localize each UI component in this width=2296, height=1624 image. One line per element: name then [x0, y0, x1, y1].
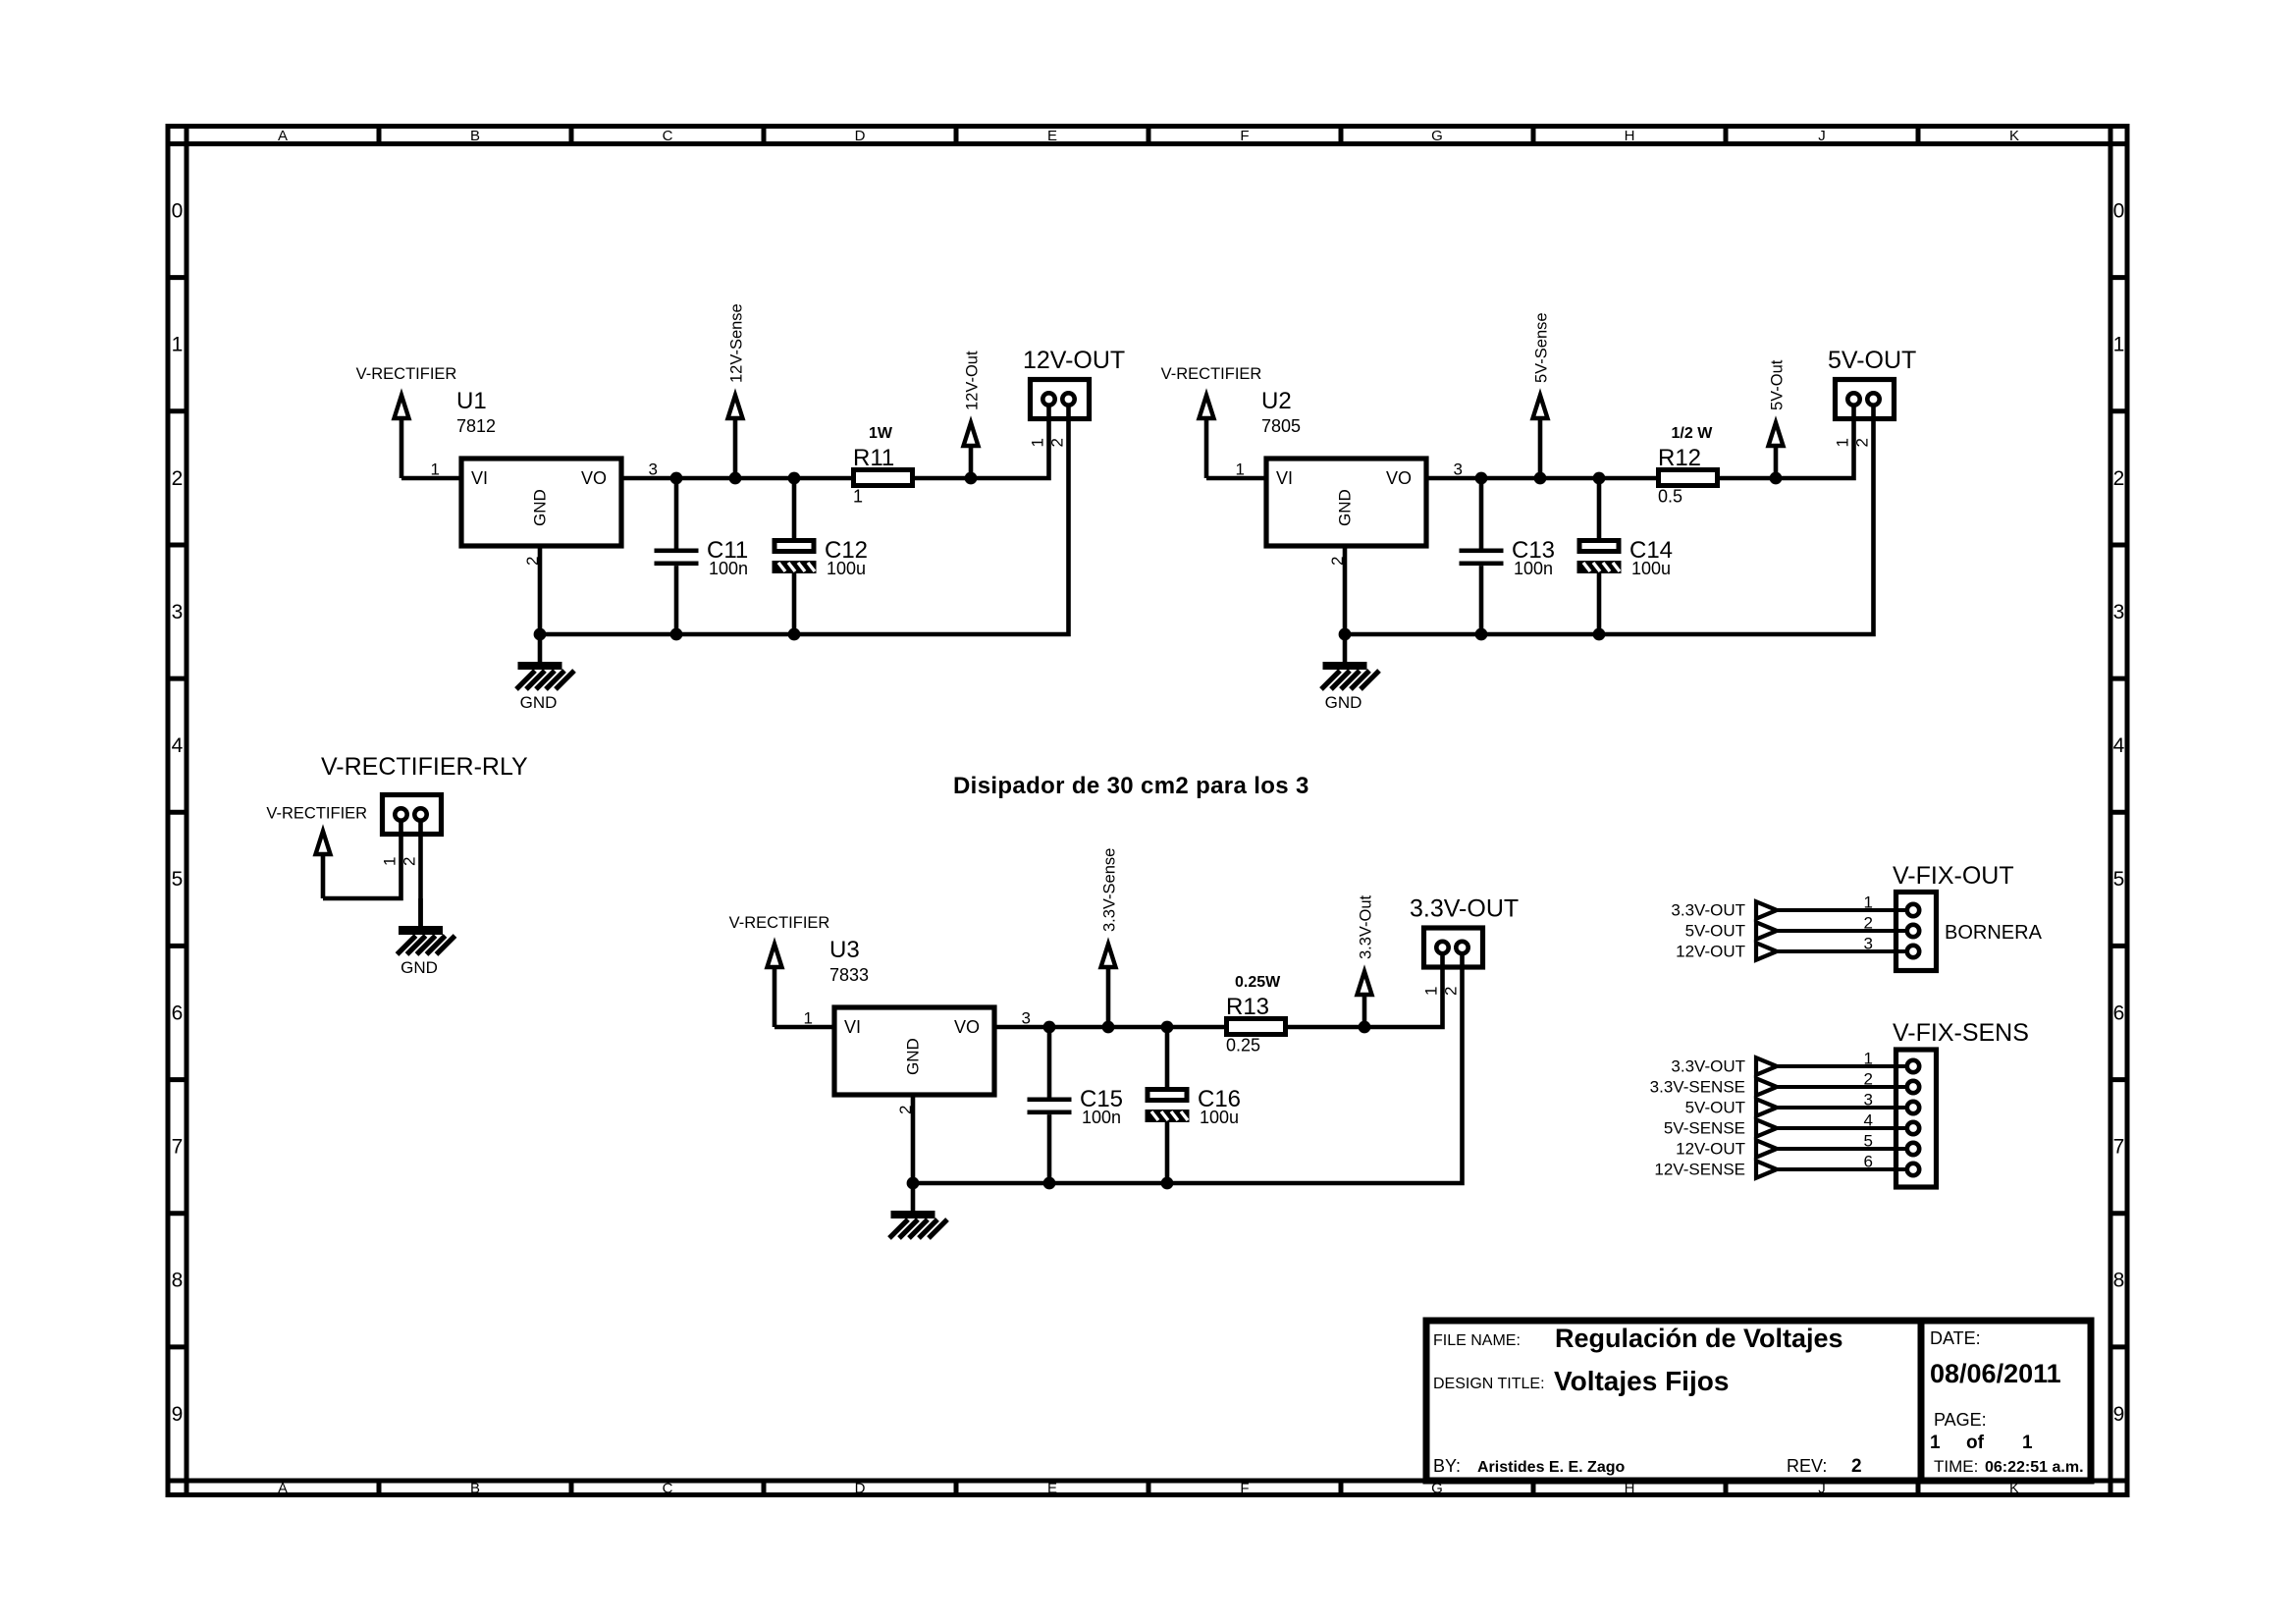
wire 3.3V-SENSE to V-FIX-SENS pin 2	[1777, 1085, 1913, 1089]
wire C14 top lead	[1597, 478, 1602, 538]
svg-text:PAGE:: PAGE:	[1934, 1410, 1987, 1430]
svg-text:VI: VI	[471, 468, 488, 488]
power flag 12V-Out	[964, 423, 979, 479]
connector 3.3V-OUT pin circles	[1436, 942, 1468, 953]
capacitor C16 (electrolytic)	[1146, 1090, 1190, 1123]
svg-text:GND: GND	[904, 1038, 923, 1075]
wire 5V-OUT to V-FIX-SENS pin 3	[1777, 1106, 1913, 1110]
power flag V-RECTIFIER	[1200, 396, 1214, 479]
wire V-RECTIFIER to U1 VI	[401, 476, 459, 481]
svg-text:V-RECTIFIER-RLY: V-RECTIFIER-RLY	[321, 753, 528, 781]
connector 12V-OUT	[1031, 380, 1090, 419]
power flag 5V-Sense	[1533, 396, 1548, 479]
title block frame	[1426, 1321, 2091, 1481]
svg-text:1/2 W: 1/2 W	[1672, 425, 1714, 442]
junction C13 ground	[1475, 628, 1488, 641]
junction C13	[1475, 472, 1488, 485]
power flag V-RECTIFIER	[395, 396, 409, 479]
svg-text:G: G	[1431, 128, 1443, 144]
ground	[1321, 634, 1379, 689]
svg-text:V-RECTIFIER: V-RECTIFIER	[1161, 365, 1262, 383]
svg-text:R12: R12	[1658, 445, 1701, 471]
svg-text:U1: U1	[456, 388, 487, 414]
svg-text:B: B	[470, 1481, 480, 1497]
svg-text:VI: VI	[1276, 468, 1293, 488]
svg-text:C: C	[663, 128, 673, 144]
junction ground bus	[534, 628, 547, 641]
svg-text:5V-OUT: 5V-OUT	[1685, 922, 1745, 941]
svg-text:A: A	[278, 128, 288, 144]
wire 5V-SENSE to V-FIX-SENS pin 4	[1777, 1126, 1913, 1130]
power flag V-RECTIFIER	[316, 832, 331, 899]
power flag 5V-Out	[1769, 423, 1784, 479]
svg-text:9: 9	[2113, 1403, 2125, 1426]
port arrow 12V-OUT	[1756, 1140, 1777, 1157]
svg-text:5: 5	[1864, 1132, 1873, 1151]
svg-text:5: 5	[2113, 868, 2125, 891]
svg-text:12V-OUT: 12V-OUT	[1023, 347, 1125, 374]
svg-text:BORNERA: BORNERA	[1945, 922, 2043, 944]
regulator U1 (7812)	[461, 459, 621, 546]
ground	[516, 634, 574, 689]
svg-text:08/06/2011: 08/06/2011	[1930, 1359, 2061, 1388]
connector 5V-OUT pin circles	[1847, 393, 1879, 405]
wire ground bus to connector pin 2	[540, 400, 1069, 635]
wire 3.3V-OUT to V-FIX-SENS pin 1	[1777, 1064, 1913, 1068]
wire 12V-OUT to V-FIX-SENS pin 5	[1777, 1147, 1913, 1151]
svg-text:5V-OUT: 5V-OUT	[1685, 1099, 1745, 1117]
port arrow 3.3V-OUT	[1756, 901, 1777, 918]
svg-text:3: 3	[1864, 1091, 1873, 1110]
svg-text:1: 1	[431, 460, 440, 479]
svg-text:REV:: REV:	[1787, 1456, 1827, 1476]
svg-text:0: 0	[172, 200, 184, 223]
svg-text:5V-Out: 5V-Out	[1769, 359, 1787, 410]
svg-text:8: 8	[172, 1270, 184, 1292]
svg-text:2: 2	[400, 857, 419, 866]
port arrow 3.3V-OUT	[1756, 1057, 1777, 1074]
svg-text:3: 3	[649, 460, 658, 479]
svg-text:V-RECTIFIER: V-RECTIFIER	[266, 805, 367, 823]
svg-text:3.3V-Out: 3.3V-Out	[1358, 894, 1375, 959]
power flag V-RECTIFIER	[768, 945, 782, 1028]
junction C12	[788, 472, 801, 485]
wire ground bus to connector pin 2	[1345, 400, 1874, 635]
power flag 3.3V-Sense	[1101, 945, 1116, 1028]
svg-text:12V-SENSE: 12V-SENSE	[1654, 1161, 1745, 1179]
junction sense	[1102, 1021, 1115, 1034]
svg-text:9: 9	[172, 1403, 184, 1426]
svg-text:2: 2	[1048, 438, 1067, 447]
ground	[398, 898, 455, 954]
svg-text:F: F	[1240, 1481, 1249, 1497]
svg-text:1: 1	[853, 487, 863, 507]
svg-text:6: 6	[2113, 1001, 2125, 1024]
svg-text:7833: 7833	[829, 965, 869, 985]
junction C11 ground	[670, 628, 683, 641]
svg-text:1: 1	[1029, 438, 1047, 447]
svg-text:R11: R11	[853, 445, 894, 471]
svg-text:3.3V-OUT: 3.3V-OUT	[1671, 1057, 1745, 1076]
wire R13 to connector pin 1	[1288, 947, 1443, 1027]
svg-text:2: 2	[1851, 1456, 1862, 1477]
svg-text:D: D	[855, 1481, 866, 1497]
wire U3 VO rail	[996, 1025, 1227, 1030]
svg-text:7805: 7805	[1261, 416, 1301, 436]
svg-text:U2: U2	[1261, 388, 1292, 414]
svg-text:6: 6	[172, 1001, 184, 1024]
svg-text:12V-Out: 12V-Out	[964, 351, 982, 410]
junction sense	[1534, 472, 1547, 485]
svg-text:BY:: BY:	[1433, 1456, 1461, 1476]
svg-text:0: 0	[2113, 200, 2125, 223]
svg-text:V-FIX-OUT: V-FIX-OUT	[1893, 862, 2014, 890]
svg-text:3: 3	[1864, 935, 1873, 953]
capacitor C15	[1028, 1098, 1072, 1115]
svg-text:8: 8	[2113, 1270, 2125, 1292]
svg-text:1: 1	[804, 1009, 813, 1028]
junction ground bus	[907, 1177, 920, 1190]
sheet row numbers 0-9 left	[172, 200, 184, 1426]
svg-text:3.3V-OUT: 3.3V-OUT	[1410, 895, 1519, 923]
ground	[889, 1183, 947, 1238]
svg-text:U3: U3	[829, 937, 860, 963]
svg-text:1: 1	[1864, 1050, 1873, 1068]
capacitor C13	[1460, 549, 1504, 567]
svg-text:1: 1	[1236, 460, 1245, 479]
svg-text:TIME:: TIME:	[1934, 1457, 1978, 1476]
svg-text:2: 2	[1442, 987, 1461, 996]
wire C15 top lead	[1047, 1027, 1052, 1098]
svg-text:3: 3	[172, 601, 184, 623]
wire RLY pin 1 to V-RECTIFIER	[323, 815, 401, 899]
sheet column ticks top/bottom	[168, 127, 2127, 1495]
svg-text:2: 2	[2113, 467, 2125, 490]
port arrow 5V-OUT	[1756, 922, 1777, 939]
svg-text:3: 3	[2113, 601, 2125, 623]
svg-text:A: A	[278, 1481, 288, 1497]
port arrow 5V-SENSE	[1756, 1119, 1777, 1136]
svg-text:Aristides E. E. Zago: Aristides E. E. Zago	[1477, 1459, 1625, 1476]
svg-text:2: 2	[1853, 438, 1872, 447]
resistor R12	[1659, 470, 1718, 486]
port arrow 12V-SENSE	[1756, 1161, 1777, 1177]
connector 3.3V-OUT	[1424, 928, 1483, 967]
wire C13 bottom lead	[1479, 566, 1484, 634]
connector V-FIX-SENS	[1896, 1050, 1937, 1187]
junction sense	[729, 472, 742, 485]
svg-text:100u: 100u	[1631, 559, 1671, 578]
svg-text:1: 1	[1930, 1433, 1941, 1453]
junction C14 ground	[1593, 628, 1606, 641]
svg-text:E: E	[1047, 1481, 1057, 1497]
port arrow 12V-OUT	[1756, 943, 1777, 959]
svg-text:100n: 100n	[1514, 559, 1553, 578]
svg-text:12V-OUT: 12V-OUT	[1676, 943, 1745, 961]
svg-text:7: 7	[172, 1136, 184, 1159]
svg-text:1: 1	[1864, 893, 1873, 912]
wire 12V-OUT to V-FIX-OUT pin 3	[1777, 949, 1913, 953]
wire V-RECTIFIER to U2 VI	[1206, 476, 1264, 481]
svg-text:1: 1	[172, 334, 184, 356]
connector V-FIX-OUT pin circles	[1907, 904, 1919, 957]
capacitor C11	[655, 549, 699, 567]
svg-text:06:22:51 a.m.: 06:22:51 a.m.	[1985, 1459, 2084, 1476]
wire U1 VO rail	[623, 476, 854, 481]
wire U2 VO rail	[1428, 476, 1659, 481]
svg-text:6: 6	[1864, 1153, 1873, 1171]
wire U3 GND pin	[911, 1093, 916, 1184]
svg-text:DATE:: DATE:	[1930, 1328, 1981, 1348]
svg-text:0.5: 0.5	[1658, 487, 1682, 507]
svg-text:VI: VI	[844, 1017, 861, 1037]
svg-text:V-RECTIFIER: V-RECTIFIER	[356, 365, 457, 383]
sheet column letters A-K top	[278, 128, 2019, 144]
power flag 3.3V-Out	[1358, 972, 1372, 1028]
svg-text:4: 4	[2113, 734, 2125, 757]
svg-text:J: J	[1818, 128, 1826, 144]
svg-text:B: B	[470, 128, 480, 144]
svg-text:1: 1	[2022, 1433, 2033, 1453]
svg-text:Regulación de Voltajes: Regulación de Voltajes	[1555, 1324, 1843, 1353]
junction C15 ground	[1043, 1177, 1056, 1190]
svg-text:100u: 100u	[827, 559, 866, 578]
wire R12 to connector pin 1	[1720, 400, 1854, 479]
junction C11	[670, 472, 683, 485]
svg-text:3: 3	[1454, 460, 1463, 479]
wire 5V-OUT to V-FIX-OUT pin 2	[1777, 929, 1913, 933]
wire C12 bottom lead	[792, 573, 797, 634]
connector V-FIX-SENS pin circles	[1907, 1060, 1919, 1175]
junction out flag	[1359, 1021, 1371, 1034]
svg-text:VO: VO	[954, 1017, 980, 1037]
svg-text:1: 1	[1422, 987, 1441, 996]
svg-text:C: C	[663, 1481, 673, 1497]
sheet inner border	[168, 127, 2127, 1495]
svg-text:3.3V-Sense: 3.3V-Sense	[1101, 848, 1119, 932]
svg-text:GND: GND	[1336, 489, 1355, 526]
svg-text:GND: GND	[400, 958, 438, 977]
svg-text:12V-OUT: 12V-OUT	[1676, 1140, 1745, 1159]
junction C12 ground	[788, 628, 801, 641]
junction C15	[1043, 1021, 1056, 1034]
svg-text:5: 5	[172, 868, 184, 891]
svg-text:4: 4	[1864, 1111, 1873, 1130]
wire C11 top lead	[674, 478, 679, 549]
svg-text:DESIGN TITLE:: DESIGN TITLE:	[1433, 1376, 1545, 1392]
wire C12 top lead	[792, 478, 797, 538]
svg-text:3.3V-SENSE: 3.3V-SENSE	[1650, 1078, 1745, 1097]
svg-text:5V-SENSE: 5V-SENSE	[1664, 1119, 1745, 1138]
svg-text:V-RECTIFIER: V-RECTIFIER	[729, 914, 830, 932]
svg-text:VO: VO	[581, 468, 607, 488]
svg-text:0.25: 0.25	[1226, 1036, 1260, 1056]
svg-text:1: 1	[2113, 334, 2125, 356]
svg-text:7: 7	[2113, 1136, 2125, 1159]
connector 5V-OUT	[1836, 380, 1895, 419]
resistor R13	[1227, 1019, 1286, 1035]
svg-text:GND: GND	[1325, 693, 1362, 712]
svg-text:Voltajes Fijos: Voltajes Fijos	[1554, 1366, 1729, 1396]
svg-text:GND: GND	[531, 489, 550, 526]
wire RLY pin 2 to ground	[418, 815, 423, 927]
wire C13 top lead	[1479, 478, 1484, 549]
junction out flag	[965, 472, 978, 485]
svg-text:3.3V-OUT: 3.3V-OUT	[1671, 901, 1745, 920]
svg-text:100n: 100n	[1082, 1108, 1121, 1127]
svg-text:D: D	[855, 128, 866, 144]
sheet column letters A-K bottom	[278, 1481, 2019, 1497]
svg-text:12V-Sense: 12V-Sense	[728, 303, 746, 383]
svg-text:3: 3	[1022, 1009, 1031, 1028]
svg-text:GND: GND	[520, 693, 558, 712]
wire R11 to connector pin 1	[915, 400, 1049, 479]
svg-text:F: F	[1240, 128, 1249, 144]
wire C16 top lead	[1165, 1027, 1170, 1087]
svg-text:100n: 100n	[709, 559, 748, 578]
sheet outer border	[168, 127, 2127, 1495]
resistor R11	[854, 470, 913, 486]
svg-text:H: H	[1625, 128, 1635, 144]
junction C16	[1161, 1021, 1174, 1034]
connector V-FIX-OUT	[1896, 893, 1937, 971]
svg-text:of: of	[1966, 1433, 1985, 1453]
svg-text:7812: 7812	[456, 416, 496, 436]
wire V-RECTIFIER to U3 VI	[774, 1025, 832, 1030]
svg-text:VO: VO	[1386, 468, 1412, 488]
wire U2 GND pin	[1343, 544, 1348, 635]
svg-text:Disipador de 30 cm2 para los 3: Disipador de 30 cm2 para los 3	[953, 773, 1309, 799]
capacitor C12 (electrolytic)	[773, 541, 817, 574]
junction ground bus	[1339, 628, 1352, 641]
svg-text:V-FIX-SENS: V-FIX-SENS	[1893, 1019, 2029, 1047]
port arrow 3.3V-SENSE	[1756, 1078, 1777, 1095]
svg-text:2: 2	[1864, 1070, 1873, 1089]
svg-text:1W: 1W	[869, 425, 893, 442]
junction out flag	[1770, 472, 1783, 485]
svg-text:FILE NAME:: FILE NAME:	[1433, 1332, 1521, 1349]
connector V-RECTIFIER-RLY pin circles	[395, 808, 426, 820]
svg-text:R13: R13	[1226, 994, 1269, 1020]
svg-text:2: 2	[172, 467, 184, 490]
port arrow 5V-OUT	[1756, 1099, 1777, 1115]
regulator U2 (7805)	[1266, 459, 1426, 546]
svg-text:0.25W: 0.25W	[1235, 974, 1281, 991]
svg-text:100u: 100u	[1200, 1108, 1239, 1127]
sheet row numbers 0-9 right	[2113, 200, 2125, 1426]
wire C16 bottom lead	[1165, 1122, 1170, 1183]
wire 12V-SENSE to V-FIX-SENS pin 6	[1777, 1167, 1913, 1171]
svg-text:5V-OUT: 5V-OUT	[1828, 347, 1916, 374]
connector V-RECTIFIER-RLY	[383, 795, 442, 835]
junction C14	[1593, 472, 1606, 485]
regulator U3 (7833)	[834, 1007, 994, 1095]
capacitor C14 (electrolytic)	[1577, 541, 1622, 574]
svg-text:2: 2	[1864, 914, 1873, 933]
power flag 12V-Sense	[728, 396, 743, 479]
connector 12V-OUT pin circles	[1042, 393, 1074, 405]
wire U1 GND pin	[538, 544, 543, 635]
svg-text:K: K	[2009, 128, 2019, 144]
wire ground bus to connector pin 2	[913, 947, 1463, 1183]
svg-text:1: 1	[381, 857, 400, 866]
wire C15 bottom lead	[1047, 1114, 1052, 1183]
svg-text:1: 1	[1834, 438, 1852, 447]
svg-text:5V-Sense: 5V-Sense	[1533, 312, 1551, 383]
svg-text:E: E	[1047, 128, 1057, 144]
junction C16 ground	[1161, 1177, 1174, 1190]
wire 3.3V-OUT to V-FIX-OUT pin 1	[1777, 908, 1913, 912]
wire C11 bottom lead	[674, 566, 679, 634]
wire C14 bottom lead	[1597, 573, 1602, 634]
svg-text:4: 4	[172, 734, 184, 757]
